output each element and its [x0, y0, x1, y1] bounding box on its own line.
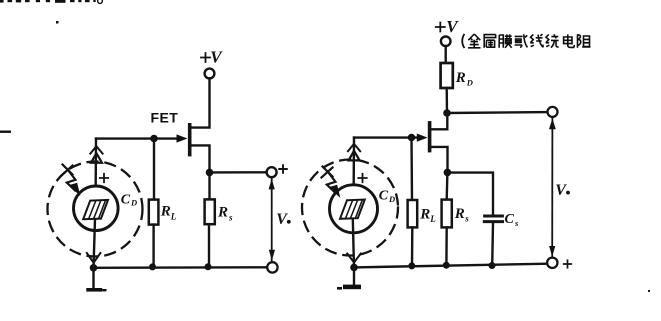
glyph jin (metal) — [468, 34, 480, 48]
junction dot: C_S bottom (right) — [489, 262, 496, 269]
stray tick at left edge — [0, 131, 11, 133]
junction dot: R_S bottom (left) — [205, 263, 212, 270]
output terminal bottom (left) — [267, 262, 277, 272]
output terminal bottom (right) — [547, 258, 557, 268]
wire: source node to + output terminal (left) — [210, 171, 268, 173]
svg-text:FET: FET — [151, 109, 179, 125]
photoresistor body circle (left) — [74, 186, 119, 231]
wire: R_L top lead (left) — [153, 139, 155, 200]
wire: drain node down to FET drain (right) — [431, 113, 447, 129]
svg-text:V: V — [446, 17, 459, 36]
gate arrowhead (left) — [177, 134, 188, 142]
FET gate bar (left) — [188, 125, 192, 155]
label R_L (right) — [419, 207, 436, 225]
wire: R_L top lead (right) — [410, 138, 413, 201]
label R_S (right) — [454, 206, 470, 224]
capacitor C_S plates (right) — [485, 215, 503, 218]
resistor R_D (right) — [441, 63, 453, 88]
svg-text:s: s — [228, 213, 233, 223]
wire: R_L bottom lead (right) — [411, 227, 414, 266]
photoresistor lead from gate corner down (right) — [352, 138, 355, 200]
svg-text:R: R — [455, 70, 466, 86]
+V supply label (right) — [436, 17, 460, 36]
bottom rail (left) — [94, 266, 268, 269]
glyph rao (wind/coil) — [546, 34, 559, 47]
+V supply terminal (right) — [441, 37, 451, 47]
junction dot: gate / R_L top (left) — [150, 135, 158, 143]
open triangle arrowhead on lead (right) — [349, 151, 360, 161]
svg-text:R: R — [454, 206, 465, 222]
ground bar (right) — [343, 285, 361, 290]
junction dot: R_L bottom (left) — [149, 263, 156, 270]
wire: R_S top lead (left) — [208, 172, 210, 199]
junction dot: drain node (right) — [443, 109, 451, 117]
light arrow (left) — [62, 165, 80, 195]
wire: R_S top lead (right) — [446, 172, 449, 199]
wire: drain node to output top terminal (right) — [447, 111, 547, 114]
svg-text:C: C — [505, 212, 515, 227]
FET gate bar (right) — [428, 123, 432, 151]
+V supply terminal (left) — [205, 69, 215, 79]
junction dot: gate / R_L top (right) — [408, 134, 416, 142]
glyph shu (genus/belong) — [484, 35, 496, 48]
cropped caption text fragments at top edge — [0, 0, 102, 3]
ground stub (left) — [92, 268, 94, 288]
svg-text:R: R — [419, 207, 430, 223]
glyph dian (electric) — [564, 34, 575, 47]
V0 down arrowhead (right) — [549, 246, 555, 257]
svg-text:D: D — [466, 78, 473, 88]
resistor R_L (right) — [408, 200, 418, 227]
plus sign inside envelope (right) — [358, 174, 366, 182]
wire: C_S bottom lead (right) — [491, 223, 494, 266]
bottom rail (right) — [354, 264, 547, 268]
svg-text:V: V — [555, 182, 567, 199]
label C_S (right) — [505, 212, 520, 228]
junction dot: source node (right) — [444, 169, 452, 177]
V0 down arrowhead (left) — [269, 250, 275, 261]
output terminal top + (left) — [267, 167, 277, 177]
label R_D (right) — [455, 70, 473, 88]
wire: R_D to drain node (right) — [446, 88, 449, 113]
dashed envelope circle (right) — [302, 160, 398, 256]
photoresistor bottom lead (right) — [353, 219, 354, 268]
down chevron at bottom crossing (left) — [87, 253, 101, 263]
label C_D (left) — [121, 192, 137, 207]
svg-text:D: D — [388, 194, 395, 204]
label V0 (right) — [555, 182, 570, 199]
wire: R_S bottom lead (right) — [445, 227, 448, 265]
svg-text:s: s — [464, 214, 469, 224]
wire: R_L bottom lead (left) — [152, 225, 154, 268]
photoresistor parallelogram with hatching (left) — [83, 200, 108, 219]
svg-text:D: D — [130, 198, 137, 208]
junction dot: R_L bottom (right) — [408, 262, 415, 269]
wire: gate from photoresistor node to FET (left) — [96, 137, 176, 139]
svg-text:V: V — [276, 211, 288, 228]
V0 measurement line (right) — [551, 117, 553, 257]
resistor R_S (right) — [442, 200, 452, 228]
up chevron on lead (left) — [90, 146, 102, 153]
plus sign inside envelope (left) — [100, 174, 108, 182]
label C_D (right) — [379, 189, 395, 205]
plus sign at top output (left) — [279, 165, 287, 173]
photoresistor lead from gate corner down (left) — [94, 139, 97, 200]
wire: R_S bottom lead (left) — [208, 224, 210, 267]
ground bar (left) — [86, 288, 102, 292]
wire: FET source to source node (right) — [431, 147, 448, 169]
photoresistor bottom lead (left) — [94, 219, 96, 268]
wire: gate from photoresistor node to FET (right) — [354, 136, 417, 138]
photoresistor parallelogram with hatching (right) — [340, 200, 365, 219]
svg-text:s: s — [514, 218, 519, 228]
stray speck bottom-right — [648, 290, 650, 292]
label R_S (left) — [217, 205, 233, 223]
resistor R_L (left) — [149, 200, 159, 225]
label R_L (left) — [160, 204, 177, 222]
svg-text:V: V — [210, 48, 223, 67]
output terminal top (right) — [548, 107, 558, 117]
+V supply label (left) — [201, 48, 223, 67]
caption: (metal film or wirewound resistor) — [462, 34, 590, 48]
stray speck dot upper-left — [56, 21, 59, 24]
svg-text:L: L — [429, 214, 436, 224]
glyph xian (wire) — [530, 34, 543, 47]
svg-text:L: L — [170, 212, 177, 222]
dashed envelope circle (left) — [48, 162, 143, 257]
svg-text:C: C — [379, 189, 389, 204]
light arrow (right) — [322, 167, 340, 197]
wire: source node over to capacitor C_S (right) — [447, 173, 493, 215]
junction dot: bottom-left node (left) — [90, 264, 98, 272]
junction dot: bottom-left node (right) — [350, 264, 358, 272]
wire: +V terminal to FET drain (left) — [191, 78, 210, 127]
wire: +V terminal to R_D (right) — [445, 46, 447, 63]
glyph zu (resist) — [578, 34, 591, 47]
open paren — [462, 34, 464, 48]
svg-text:R: R — [217, 205, 228, 221]
junction dot: R_S bottom (right) — [443, 262, 450, 269]
gate arrowhead (right) — [417, 134, 428, 142]
glyph huo (or) — [515, 34, 528, 48]
V0 up arrowhead (left) — [269, 179, 275, 190]
svg-text:R: R — [160, 204, 171, 220]
V0 up arrowhead (right) — [549, 118, 556, 129]
wire: FET source to source node (left) — [191, 145, 210, 169]
svg-text:C: C — [121, 192, 131, 207]
down chevron at bottom crossing (right) — [347, 254, 361, 263]
label V0 (left) — [276, 211, 290, 228]
plus sign at bottom output (right) — [564, 260, 572, 268]
V0 measurement line (left) — [271, 177, 273, 262]
glyph mo (membrane) — [499, 34, 512, 47]
ground stub (right) — [353, 267, 355, 285]
open triangle arrowhead on lead (left) — [91, 153, 102, 163]
up chevron on lead (right) — [348, 144, 360, 151]
resistor R_S (left) — [205, 199, 215, 224]
ground bar nub (left) — [102, 289, 106, 291]
ground bar nub (right) — [337, 287, 342, 290]
junction dot: source node (left) — [206, 169, 214, 177]
photoresistor body circle (right) — [330, 185, 378, 233]
